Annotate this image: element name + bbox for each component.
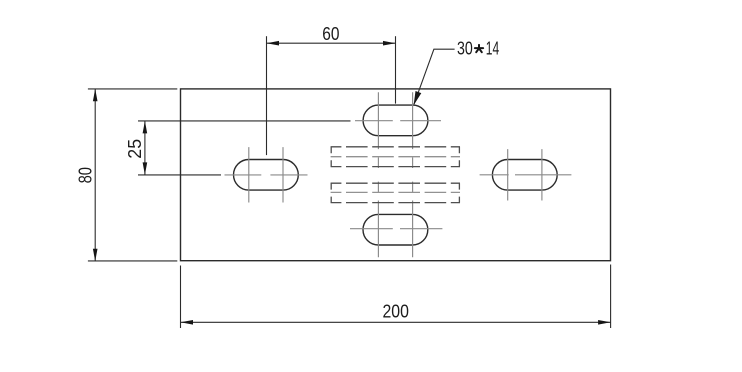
svg-text:25: 25: [125, 139, 145, 159]
svg-text:200: 200: [383, 302, 409, 322]
svg-text:80: 80: [76, 167, 96, 183]
svg-text:14: 14: [486, 38, 499, 58]
svg-text:60: 60: [322, 24, 339, 44]
svg-text:30: 30: [457, 38, 473, 58]
